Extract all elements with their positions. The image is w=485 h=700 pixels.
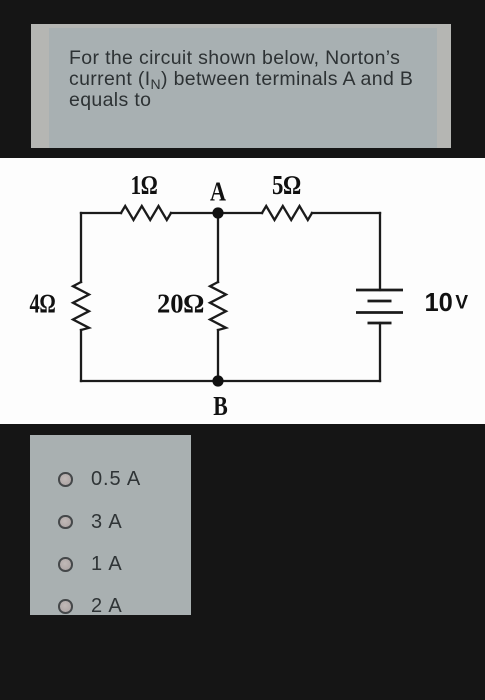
- wire middle lower: [217, 330, 219, 381]
- resistor R3 4ohm: [73, 282, 89, 330]
- node A dot: [212, 207, 223, 218]
- wire top-middle: [171, 212, 262, 214]
- radio option 1: [58, 472, 73, 487]
- svg-text:5Ω: 5Ω: [272, 170, 301, 200]
- question box: [31, 24, 451, 148]
- wire left lower: [80, 330, 82, 381]
- svg-text:20Ω: 20Ω: [157, 289, 204, 319]
- resistor R1 1ohm: [121, 206, 171, 220]
- wire middle upper: [217, 213, 219, 282]
- battery V1 plate short: [368, 300, 392, 303]
- svg-text:10V: 10V: [425, 289, 469, 317]
- resistor R2 5ohm: [262, 206, 312, 220]
- resistor R4 20ohm: [210, 282, 226, 330]
- radio option 2: [58, 515, 73, 530]
- wire right lower: [379, 323, 381, 381]
- wire bottom: [81, 380, 380, 382]
- wire left upper: [80, 213, 82, 282]
- radio option 3: [58, 557, 73, 572]
- wire top-left: [81, 212, 121, 214]
- svg-text:1Ω: 1Ω: [131, 170, 158, 200]
- battery V1 plate short bottom: [368, 322, 392, 325]
- circuit area: [0, 158, 485, 424]
- svg-text:4Ω: 4Ω: [30, 289, 56, 319]
- battery V1 plate long top: [356, 289, 403, 292]
- svg-text:B: B: [213, 391, 228, 421]
- options box: [30, 435, 191, 615]
- wire right upper: [379, 213, 381, 290]
- svg-text:A: A: [210, 177, 226, 207]
- radio option 4: [58, 599, 73, 614]
- wire top-right: [312, 212, 380, 214]
- node B dot: [212, 375, 223, 386]
- battery V1 plate long bottom: [356, 311, 403, 314]
